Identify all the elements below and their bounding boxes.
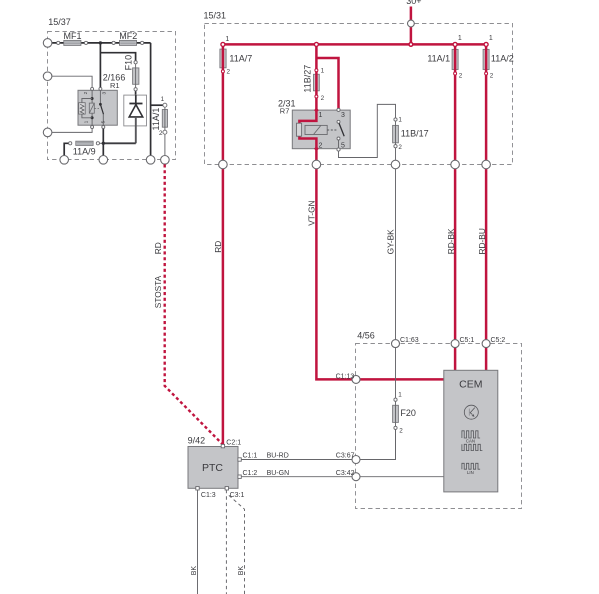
svg-text:GY-BK: GY-BK (386, 229, 396, 255)
svg-text:VT-GN: VT-GN (306, 200, 316, 225)
svg-text:3: 3 (341, 112, 345, 119)
svg-text:5: 5 (101, 120, 107, 123)
svg-text:2: 2 (227, 69, 231, 76)
svg-text:2: 2 (399, 428, 403, 435)
svg-text:5: 5 (341, 142, 345, 149)
svg-text:BK: BK (191, 566, 198, 576)
svg-text:MF2: MF2 (119, 31, 137, 41)
svg-text:2: 2 (319, 142, 323, 149)
svg-text:C3:1: C3:1 (230, 492, 245, 499)
svg-text:STOSTA: STOSTA (153, 275, 163, 308)
svg-text:1: 1 (398, 117, 402, 124)
svg-text:11B/17: 11B/17 (401, 129, 429, 139)
svg-text:BU-RD: BU-RD (267, 453, 289, 460)
svg-text:C1:13: C1:13 (336, 373, 355, 380)
svg-text:15/37: 15/37 (48, 17, 71, 27)
svg-text:11A/1: 11A/1 (427, 54, 450, 64)
svg-text:R1: R1 (110, 81, 120, 90)
svg-text:1: 1 (458, 35, 462, 42)
svg-text:9/42: 9/42 (188, 436, 206, 446)
svg-text:RD-BU: RD-BU (477, 228, 487, 254)
svg-text:1: 1 (319, 112, 323, 119)
svg-text:F10: F10 (123, 55, 133, 71)
svg-text:F20: F20 (400, 408, 416, 418)
svg-text:MF1: MF1 (64, 31, 82, 41)
svg-text:PTC: PTC (202, 462, 223, 474)
svg-text:1: 1 (398, 392, 402, 399)
svg-text:2: 2 (83, 91, 89, 94)
svg-text:C1:63: C1:63 (400, 337, 419, 344)
svg-text:11A/9: 11A/9 (73, 147, 96, 157)
svg-text:CEM: CEM (459, 378, 482, 390)
svg-text:LIN: LIN (467, 470, 474, 475)
svg-text:1: 1 (84, 120, 90, 123)
svg-text:R7: R7 (280, 107, 290, 116)
svg-text:2: 2 (490, 72, 494, 79)
svg-text:C5:1: C5:1 (460, 337, 475, 344)
svg-text:2: 2 (398, 144, 402, 151)
svg-text:1: 1 (489, 35, 493, 42)
svg-text:11B/27: 11B/27 (302, 65, 312, 93)
svg-text:C5:2: C5:2 (491, 337, 506, 344)
svg-text:RD: RD (213, 241, 223, 253)
svg-text:RD-BK: RD-BK (446, 228, 456, 254)
svg-text:15/31: 15/31 (204, 11, 227, 21)
svg-text:11A/7: 11A/7 (229, 53, 252, 63)
svg-text:11A/2: 11A/2 (491, 54, 514, 64)
svg-text:C2:1: C2:1 (226, 440, 241, 447)
svg-text:C1:2: C1:2 (243, 470, 258, 477)
svg-text:3: 3 (102, 92, 108, 95)
svg-text:BK: BK (238, 566, 245, 576)
svg-text:C1:1: C1:1 (243, 453, 258, 460)
svg-text:C3:67: C3:67 (336, 453, 355, 460)
svg-text:1: 1 (161, 96, 165, 103)
svg-text:C1:3: C1:3 (201, 492, 216, 499)
svg-text:2: 2 (321, 95, 325, 102)
svg-text:BU-GN: BU-GN (267, 470, 290, 477)
svg-text:30+: 30+ (406, 0, 421, 6)
svg-text:2: 2 (459, 72, 463, 79)
svg-text:C3:42: C3:42 (336, 470, 355, 477)
svg-text:4/56: 4/56 (357, 331, 375, 341)
svg-text:CAN: CAN (466, 439, 475, 444)
svg-text:RD: RD (153, 242, 163, 254)
svg-text:1: 1 (225, 36, 229, 43)
svg-text:1: 1 (321, 67, 325, 74)
svg-text:11A/1: 11A/1 (151, 108, 161, 131)
